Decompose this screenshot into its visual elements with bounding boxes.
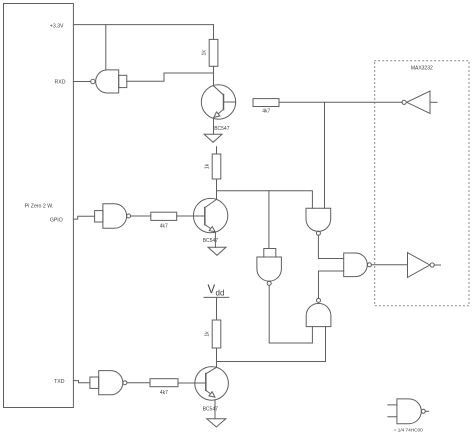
input tab U7 [90, 377, 99, 388]
transistor Q3 BC547 [193, 367, 228, 401]
output bubble U3 [317, 298, 321, 302]
wire U4 output to U6 upper input [318, 235, 343, 258]
ground G1 [204, 134, 222, 142]
wire Vdd to R5 [216, 297, 218, 320]
receiver R1IN inverter (points left) [407, 91, 430, 114]
wire R3 to Q2 base [177, 215, 194, 217]
svg-text:4k7: 4k7 [262, 108, 270, 114]
wire U2 output to R3 [131, 215, 151, 217]
input tab U1 [119, 75, 127, 87]
wire Q2 collector node to NAND U4 input [217, 191, 313, 209]
wire R1 to Q1 collector [213, 66, 215, 86]
wire U3 output to U6 lower input [319, 271, 344, 298]
svg-text:dd: dd [216, 288, 225, 297]
nand gate U5 (facing down with tab) [264, 249, 276, 258]
svg-text:+3.3V: +3.3V [50, 24, 64, 30]
wire Q2 emitter to ground [214, 233, 216, 248]
wire node to U5 tab [268, 191, 270, 249]
wire U7 output to R6 [127, 382, 150, 384]
nand gate U6 (output NAND) [344, 253, 368, 277]
wire GPIO to U2 [73, 216, 94, 219]
svg-text:TXD: TXD [54, 379, 65, 385]
transistor Q1 BC547 [201, 85, 235, 119]
svg-text:1k: 1k [205, 163, 211, 169]
resistor R5 1k [212, 320, 221, 348]
wire U6 output to driver T1 [371, 264, 407, 266]
svg-text:4k7: 4k7 [160, 390, 168, 396]
svg-text:= 1/4 74HC00: = 1/4 74HC00 [394, 428, 423, 433]
wire R6 to Q3 base [178, 382, 193, 384]
svg-text:MAX3232: MAX3232 [411, 65, 433, 71]
output bubble U5 [267, 281, 271, 285]
nand gate U2 (GPIO inverter) [103, 204, 127, 229]
wire +3.3V rail [73, 24, 213, 26]
output bubble U1 [91, 79, 95, 83]
legend bubble [421, 409, 425, 413]
ground G2 [208, 247, 226, 255]
nand gate U1 (RXD inverter, mirrored) [96, 70, 119, 93]
wire Q1 emitter to ground [213, 119, 215, 134]
wire R4 top stub [216, 147, 218, 154]
wire driver stub right [434, 264, 440, 266]
MAX3232 dashed box [375, 61, 469, 306]
wire R5 to Q3 collector [216, 348, 218, 367]
wire receiver stub right [430, 101, 437, 103]
nand gate U3 (facing up) [306, 303, 331, 326]
wire U1 output to RXD [73, 81, 90, 83]
output bubble U2 [127, 214, 131, 218]
resistor R6 4k7 [150, 379, 178, 387]
ground G3 [207, 419, 226, 427]
driver T1 inverter (points right) [408, 253, 430, 278]
svg-text:BC547: BC547 [203, 407, 219, 413]
svg-text:Pi Zero 2 W.: Pi Zero 2 W. [25, 203, 54, 209]
legend input stubs [388, 405, 397, 417]
wire receiver output / Q1 base line [279, 101, 402, 103]
resistor R4 1k (Q2 collector) [212, 154, 221, 179]
output bubble U7 [123, 381, 127, 385]
transistor Q2 BC547 [193, 198, 227, 232]
wire U1 input from Q1 collector node [127, 73, 214, 81]
resistor R3 4k7 [151, 212, 177, 220]
legend nand gate [397, 399, 421, 424]
output bubble U6 [367, 263, 371, 267]
svg-text:GPIO: GPIO [50, 218, 63, 224]
input tab U2 [95, 211, 103, 222]
svg-text:1k: 1k [202, 50, 208, 56]
wire rail to NAND U1 top input [105, 25, 107, 70]
svg-text:1k: 1k [205, 331, 211, 337]
wire U3 right input from Q3 collector node [217, 327, 326, 362]
wire TXD to U7 [73, 381, 90, 383]
nand gate U7 (TXD inverter) [99, 371, 123, 395]
svg-text:RXD: RXD [55, 79, 66, 85]
wire U1 base line input from receiver [324, 102, 326, 208]
nand gate U4 (facing down) [306, 208, 331, 231]
Pi Zero 2 W module box [4, 4, 74, 408]
wire rail to R1 [213, 25, 215, 40]
wire R4 to Q2 collector [216, 179, 218, 199]
resistor R1 1k [209, 39, 218, 66]
bubble receiver [402, 100, 406, 104]
output bubble U4 [316, 231, 320, 235]
wire U5 output to U3 lower-left input [269, 285, 312, 343]
resistor R2 4k7 [253, 99, 279, 107]
legend output stub [425, 410, 428, 412]
wire Q3 emitter to ground [214, 400, 216, 419]
svg-text:V: V [208, 284, 216, 296]
bubble driver [430, 263, 434, 267]
svg-text:4k7: 4k7 [160, 223, 168, 229]
svg-text:BC547: BC547 [214, 126, 230, 132]
